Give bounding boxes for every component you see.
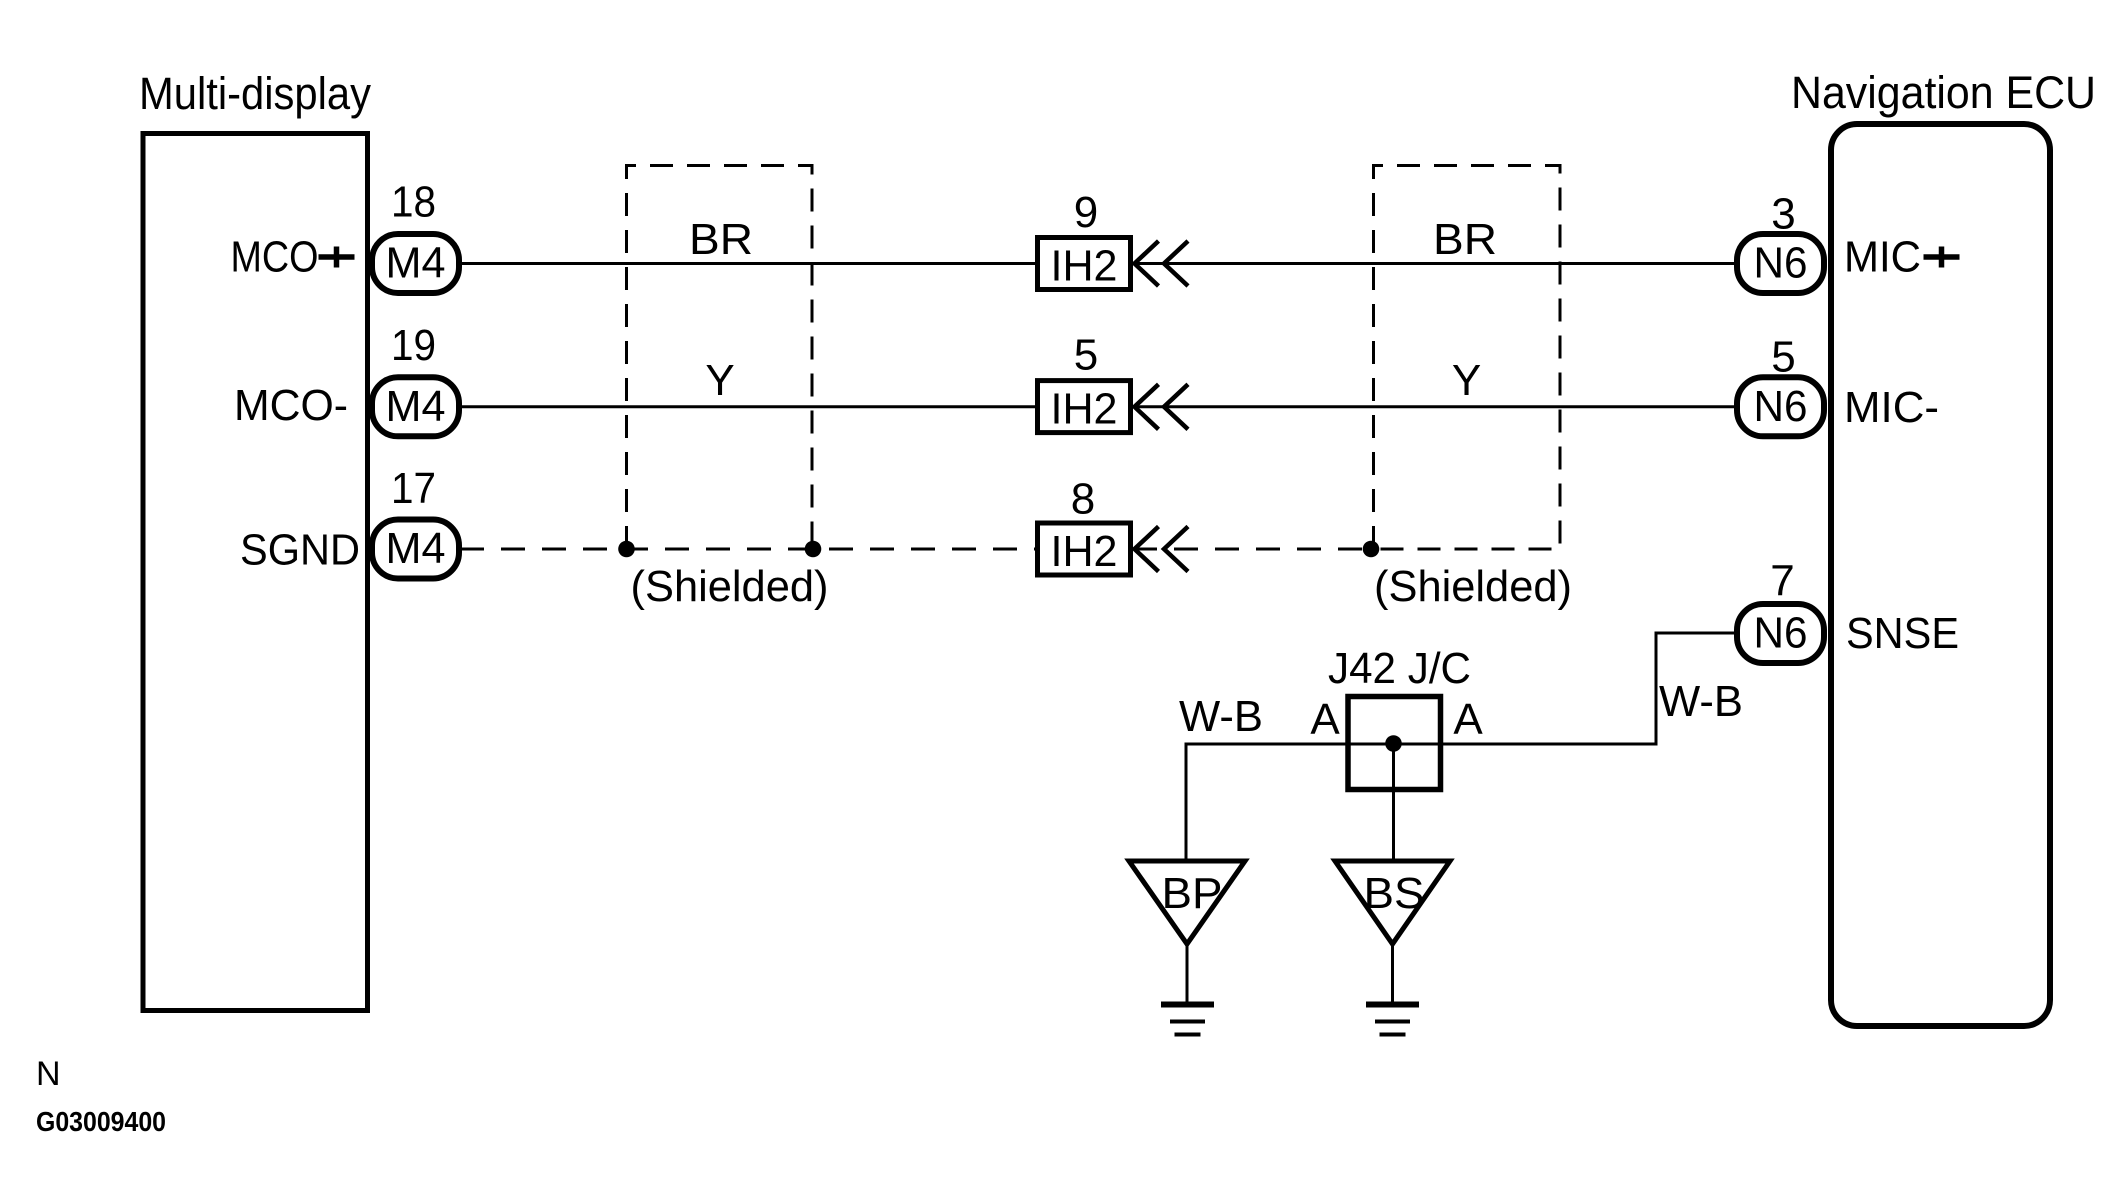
in-line connector IH2 pin 9	[1038, 238, 1131, 290]
shielded drain wire IH2 to shield (dashed)	[1133, 548, 1371, 551]
svg-text:N6: N6	[1754, 382, 1808, 431]
connector M4 pin 17	[372, 520, 459, 579]
svg-text:Navigation ECU: Navigation ECU	[1791, 67, 2096, 118]
wire through junction box	[1341, 743, 1448, 746]
connector N6 pin 7	[1737, 604, 1824, 663]
wire junction to BS ground	[1392, 744, 1395, 862]
connector M4 pin 18	[372, 234, 459, 293]
svg-text:17: 17	[391, 464, 436, 513]
BS ground symbol	[1366, 1002, 1419, 1008]
svg-text:3: 3	[1771, 190, 1795, 239]
wire IH2 to MIC+ (BR)	[1133, 262, 1737, 265]
svg-text:MCO-: MCO-	[234, 381, 348, 430]
in-line connector IH2 pin 8	[1038, 523, 1131, 575]
Multi-display component box	[143, 134, 368, 1011]
ground triangle BS	[1335, 861, 1450, 944]
wire MCO+ to IH2 (BR)	[460, 262, 1040, 265]
svg-text:5: 5	[1074, 331, 1098, 380]
svg-text:19: 19	[391, 321, 436, 370]
junction dot at right shield box corner	[1363, 541, 1380, 558]
svg-text:BS: BS	[1364, 869, 1425, 918]
wire arrow chevron 2	[1164, 384, 1188, 429]
svg-text:MIC-: MIC-	[1844, 383, 1939, 432]
svg-text:N6: N6	[1754, 609, 1808, 658]
wire arrow chevron 2	[1164, 241, 1188, 286]
svg-text:M4: M4	[386, 524, 446, 573]
svg-text:N6: N6	[1754, 239, 1808, 288]
svg-text:W-B: W-B	[1659, 677, 1743, 726]
wire IH2 to MIC- (Y)	[1133, 405, 1737, 408]
svg-text:18: 18	[391, 178, 436, 227]
svg-text:A: A	[1453, 695, 1483, 744]
svg-text:IH2: IH2	[1051, 527, 1118, 576]
junction dot shield left	[618, 541, 635, 558]
svg-text:(Shielded): (Shielded)	[1374, 562, 1572, 611]
wire MCO- to IH2 (Y)	[460, 405, 1040, 408]
svg-text:8: 8	[1071, 475, 1095, 524]
svg-text:SNSE: SNSE	[1846, 609, 1959, 658]
wire junction to BP corner (W-B)	[1186, 744, 1341, 861]
svg-text:J42 J/C: J42 J/C	[1328, 644, 1471, 693]
wire arrow chevron 1 row 1	[1135, 241, 1159, 286]
svg-text:Y: Y	[705, 356, 734, 405]
wire SNSE to junction (W-B)	[1448, 633, 1737, 744]
svg-text:IH2: IH2	[1051, 242, 1118, 291]
svg-text:N: N	[36, 1055, 61, 1093]
wire arrow chevron 1 row 2	[1135, 384, 1159, 429]
svg-text:BP: BP	[1162, 869, 1223, 918]
svg-text:IH2: IH2	[1051, 385, 1118, 434]
junction connector J42 J/C box	[1348, 697, 1441, 790]
svg-text:(Shielded): (Shielded)	[631, 562, 829, 611]
svg-text:Multi-display: Multi-display	[139, 68, 371, 119]
right shield box (dashed)	[1374, 166, 1561, 550]
connector N6 pin 5	[1737, 377, 1824, 436]
wire arrow chevron 1 row 3	[1135, 527, 1159, 572]
Navigation ECU component box	[1831, 124, 2050, 1026]
svg-text:M4: M4	[386, 382, 446, 431]
svg-text:9: 9	[1074, 188, 1098, 237]
svg-text:Y: Y	[1452, 356, 1481, 405]
svg-text:BR: BR	[1433, 215, 1497, 264]
shielded drain wire SGND to IH2 (dashed)	[460, 548, 1040, 551]
left shield box (dashed)	[627, 166, 813, 550]
svg-text:W-B: W-B	[1179, 692, 1263, 741]
junction dot J42	[1385, 735, 1402, 752]
svg-text:5: 5	[1771, 333, 1795, 382]
BP ground symbol	[1161, 1002, 1214, 1008]
ground triangle BP	[1129, 861, 1245, 944]
svg-text:BR: BR	[689, 215, 753, 264]
svg-text:M4: M4	[386, 239, 446, 288]
svg-text:SGND: SGND	[240, 526, 360, 575]
wire arrow chevron 2	[1164, 527, 1188, 572]
svg-text:7: 7	[1770, 557, 1794, 606]
svg-text:MCO: MCO	[231, 233, 319, 282]
svg-text:A: A	[1310, 695, 1340, 744]
connector N6 pin 3	[1737, 234, 1824, 293]
BP ground stem	[1186, 944, 1189, 1002]
svg-text:G03009400: G03009400	[36, 1106, 166, 1137]
in-line connector IH2 pin 5	[1038, 381, 1131, 433]
connector M4 pin 19	[372, 377, 459, 436]
junction dot shield right	[805, 541, 822, 558]
BS ground stem	[1391, 944, 1394, 1002]
svg-text:MIC: MIC	[1844, 233, 1921, 282]
